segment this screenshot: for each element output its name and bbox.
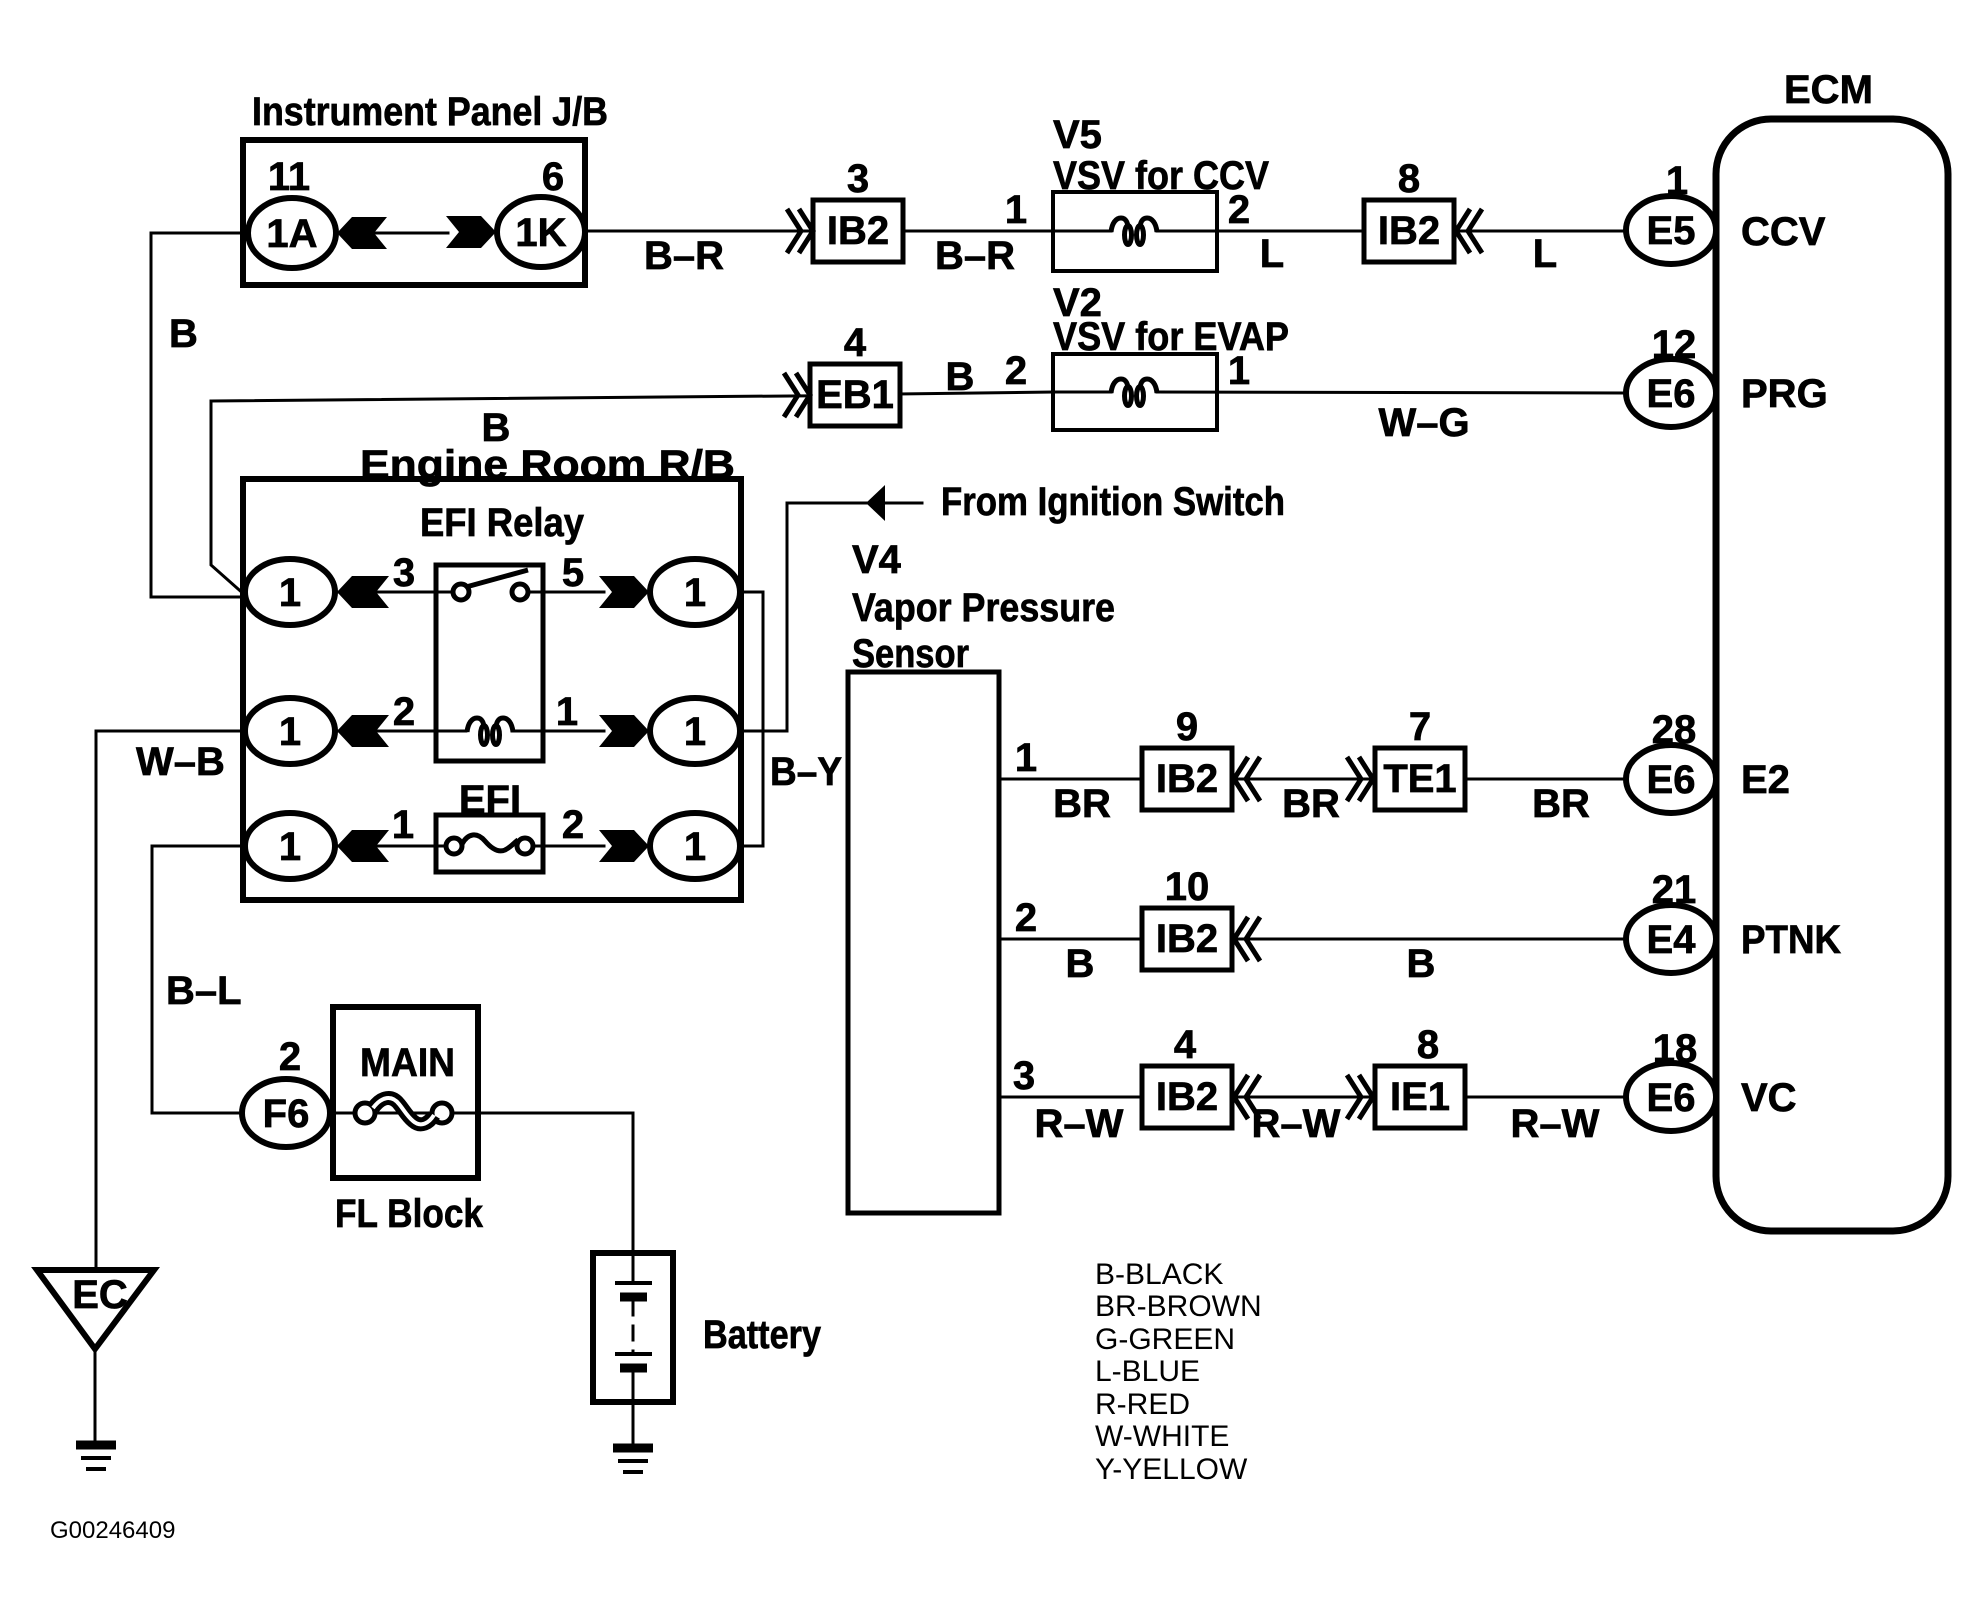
connector EB1 (4) <box>810 364 900 426</box>
svg-text:5: 5 <box>562 551 584 595</box>
svg-text:EC: EC <box>72 1273 128 1317</box>
svg-text:3: 3 <box>847 157 869 201</box>
svg-text:E4: E4 <box>1647 918 1697 962</box>
EFI relay box <box>436 565 543 761</box>
arrow into 1A <box>337 217 387 249</box>
svg-text:W–B: W–B <box>136 740 225 784</box>
svg-text:IB2: IB2 <box>1156 1075 1218 1119</box>
VSV for EVAP V2 box <box>1053 354 1217 430</box>
svg-text:EFI Relay: EFI Relay <box>420 501 585 545</box>
svg-text:G00246409: G00246409 <box>50 1517 175 1544</box>
wire BR vapor pressure sensor pin1 to E6 (E2 row) <box>999 778 1626 781</box>
svg-text:21: 21 <box>1652 868 1697 912</box>
svg-text:R-RED: R-RED <box>1095 1388 1190 1421</box>
wire B from 1A down to Engine Room R/B <box>151 233 248 597</box>
svg-text:28: 28 <box>1652 708 1697 752</box>
svg-text:R–W: R–W <box>1511 1102 1600 1146</box>
svg-text:W-WHITE: W-WHITE <box>1095 1420 1229 1453</box>
chevron splice after IB2 9 <box>1234 757 1260 801</box>
chevron splice after IB2 8 <box>1456 209 1482 253</box>
arrow into relay row1 right oval <box>599 576 649 608</box>
svg-text:Engine Room R/B: Engine Room R/B <box>360 443 735 487</box>
node E6 pin 12 <box>1626 359 1716 427</box>
wire EC triangle to ground <box>94 1349 97 1443</box>
wire battery negative to ground <box>632 1368 635 1444</box>
svg-text:1: 1 <box>279 710 301 754</box>
svg-text:6: 6 <box>542 155 564 199</box>
arrow into relay row3 right oval <box>599 830 649 862</box>
svg-text:B: B <box>169 312 198 356</box>
svg-text:1: 1 <box>279 825 301 869</box>
svg-text:W–G: W–G <box>1378 401 1469 445</box>
wire relay row2 internal <box>335 730 604 733</box>
wire MAIN fuse to battery <box>478 1113 633 1253</box>
svg-text:1: 1 <box>684 710 706 754</box>
coil of VSV for CCV V5 <box>1111 218 1157 245</box>
arrow into relay row2 left oval <box>337 715 389 747</box>
svg-text:E6: E6 <box>1647 1076 1696 1120</box>
wire inside MAIN box <box>333 1112 478 1115</box>
svg-text:VC: VC <box>1741 1076 1797 1120</box>
VSV for CCV V5 box <box>1053 192 1217 271</box>
svg-text:R–W: R–W <box>1035 1102 1124 1146</box>
connector IB2 (3) <box>813 200 903 262</box>
wire between 1A and 1K <box>336 232 448 235</box>
svg-text:E6: E6 <box>1647 758 1696 802</box>
svg-text:3: 3 <box>393 551 415 595</box>
svg-text:EFI: EFI <box>459 778 521 822</box>
svg-text:9: 9 <box>1176 705 1198 749</box>
svg-text:2: 2 <box>1228 188 1250 232</box>
chevron splice after IB2 10 <box>1234 917 1260 961</box>
wire relay row3 internal <box>335 845 604 848</box>
svg-text:CCV: CCV <box>1741 210 1826 254</box>
svg-text:L: L <box>1533 232 1557 276</box>
svg-text:E6: E6 <box>1647 372 1696 416</box>
svg-text:4: 4 <box>844 321 867 365</box>
node 1K <box>497 197 585 267</box>
svg-text:V4: V4 <box>852 538 902 582</box>
chevron splice before IE1 <box>1347 1075 1373 1119</box>
node relay row3 left 1 <box>245 813 335 879</box>
node 1A <box>248 198 336 268</box>
svg-text:1K: 1K <box>515 211 566 255</box>
svg-text:Y-YELLOW: Y-YELLOW <box>1095 1453 1248 1486</box>
svg-text:Sensor: Sensor <box>852 632 969 676</box>
connector TE1 (7) <box>1375 748 1465 810</box>
arrow from ignition switch <box>866 485 885 521</box>
ground below EC <box>76 1445 116 1469</box>
chevron splice after IB2 4 <box>1234 1075 1260 1119</box>
svg-text:FL Block: FL Block <box>335 1192 484 1236</box>
svg-text:B: B <box>1066 942 1095 986</box>
connector IB2 (10) <box>1142 908 1232 970</box>
node relay row1 right 1 <box>650 559 740 625</box>
arrow into relay row1 left oval <box>337 576 389 608</box>
wire B-R from 1K to IB2 (CCV row) <box>585 230 1111 233</box>
svg-text:7: 7 <box>1409 705 1431 749</box>
svg-text:10: 10 <box>1165 865 1210 909</box>
svg-text:2: 2 <box>562 803 584 847</box>
arrow into relay row2 right oval <box>599 715 649 747</box>
svg-text:IB2: IB2 <box>827 209 889 253</box>
svg-text:R–W: R–W <box>1252 1102 1341 1146</box>
ground below battery <box>613 1448 653 1472</box>
connector IE1 (8) <box>1375 1066 1465 1128</box>
svg-text:1: 1 <box>556 690 578 734</box>
svg-text:BR: BR <box>1532 782 1590 826</box>
svg-text:MAIN: MAIN <box>360 1041 455 1085</box>
svg-text:Instrument Panel J/B: Instrument Panel J/B <box>252 90 608 134</box>
svg-text:L: L <box>1260 232 1284 276</box>
svg-text:B-BLACK: B-BLACK <box>1095 1258 1223 1291</box>
wire relay row1 internal <box>335 591 604 594</box>
svg-text:ECM: ECM <box>1784 68 1873 112</box>
vapor pressure sensor V4 box <box>848 672 999 1213</box>
svg-text:B–R: B–R <box>935 234 1015 278</box>
coil of EFI relay <box>467 718 513 745</box>
svg-text:8: 8 <box>1398 157 1420 201</box>
svg-text:B: B <box>1407 942 1436 986</box>
EFI fuse element <box>446 835 533 854</box>
svg-text:BR: BR <box>1282 782 1340 826</box>
MAIN fusible link element <box>355 1098 452 1124</box>
svg-text:E2: E2 <box>1741 758 1790 802</box>
svg-text:11: 11 <box>268 155 310 199</box>
battery cell plates <box>615 1283 652 1368</box>
svg-text:2: 2 <box>279 1035 301 1079</box>
svg-text:12: 12 <box>1652 323 1697 367</box>
ground EC triangle <box>37 1270 154 1349</box>
svg-text:TE1: TE1 <box>1383 757 1456 801</box>
svg-text:B: B <box>946 355 975 399</box>
node relay row2 left 1 <box>245 698 335 764</box>
node E5 pin 1 <box>1626 196 1716 264</box>
battery box <box>593 1253 673 1402</box>
svg-text:F6: F6 <box>263 1092 310 1136</box>
svg-text:2: 2 <box>1015 896 1037 940</box>
wire W-B down to EC ground <box>95 731 98 1270</box>
svg-text:IB2: IB2 <box>1156 917 1218 961</box>
svg-text:2: 2 <box>1005 349 1027 393</box>
wire from ignition switch to relay row2 <box>740 503 922 731</box>
wire B from EB1 to VSV EVAP pin 2 <box>898 392 1111 394</box>
svg-text:4: 4 <box>1174 1023 1197 1067</box>
coil of VSV for EVAP V2 <box>1111 379 1157 406</box>
wire W-B to relay oval row2 <box>96 730 245 733</box>
wire battery positive stem <box>632 1253 635 1283</box>
relay block Engine Room R/B <box>243 479 741 900</box>
node relay row1 left 1 <box>245 559 335 625</box>
arrow into relay row3 left oval <box>337 830 389 862</box>
svg-text:PRG: PRG <box>1741 372 1828 416</box>
node E6 pin 18 <box>1626 1063 1716 1131</box>
svg-text:IE1: IE1 <box>1390 1075 1450 1119</box>
junction block Instrument Panel J/B <box>243 140 585 285</box>
node E4 pin 21 <box>1626 905 1716 973</box>
wire battery center dashed <box>632 1301 635 1353</box>
node relay row3 right 1 <box>650 813 740 879</box>
svg-text:V5: V5 <box>1053 113 1102 157</box>
wire R-W vapor pressure sensor pin3 to E6 (VC row) <box>999 1096 1626 1099</box>
connector IB2 (4) VC row <box>1142 1066 1232 1128</box>
connector IB2 (8) <box>1364 200 1454 262</box>
EFI relay switch contact <box>453 570 528 600</box>
wire B-L from relay row3 to F6 <box>152 846 245 1113</box>
EFI fuse box <box>436 815 543 872</box>
svg-text:B–R: B–R <box>644 234 724 278</box>
svg-text:18: 18 <box>1653 1027 1698 1071</box>
svg-text:1A: 1A <box>266 212 317 256</box>
svg-text:L-BLUE: L-BLUE <box>1095 1355 1200 1388</box>
arrow into 1K <box>446 216 496 248</box>
node F6 <box>242 1079 330 1147</box>
svg-text:IB2: IB2 <box>1378 209 1440 253</box>
node E6 pin 28 <box>1626 745 1716 813</box>
wire B from corner to EB1 (PRG row) <box>211 395 898 401</box>
svg-text:BR: BR <box>1053 782 1111 826</box>
svg-text:2: 2 <box>393 690 415 734</box>
svg-text:PTNK: PTNK <box>1741 918 1841 962</box>
wire L from VSV CCV pin2 to IB2 8 and E5 <box>1157 230 1626 233</box>
svg-text:8: 8 <box>1417 1023 1439 1067</box>
svg-text:1: 1 <box>279 571 301 615</box>
svg-text:B–Y: B–Y <box>770 750 842 794</box>
chevron splice before EB1 <box>784 373 810 417</box>
chevron splice before TE1 <box>1347 757 1373 801</box>
svg-text:Battery: Battery <box>703 1313 822 1357</box>
svg-text:Vapor Pressure: Vapor Pressure <box>852 586 1115 630</box>
svg-text:1: 1 <box>392 803 414 847</box>
svg-text:G-GREEN: G-GREEN <box>1095 1323 1235 1356</box>
svg-text:B–L: B–L <box>166 969 242 1013</box>
svg-text:1: 1 <box>1005 188 1027 232</box>
wire B-Y bus right of relay <box>740 592 763 846</box>
svg-text:EB1: EB1 <box>816 373 894 417</box>
svg-text:VSV for EVAP: VSV for EVAP <box>1053 315 1289 359</box>
connector IB2 (9) <box>1142 748 1232 810</box>
svg-text:BR-BROWN: BR-BROWN <box>1095 1290 1262 1323</box>
fusible link MAIN box <box>333 1007 478 1178</box>
node relay row2 right 1 <box>650 698 740 764</box>
svg-text:1: 1 <box>684 571 706 615</box>
svg-text:From Ignition Switch: From Ignition Switch <box>941 480 1285 524</box>
wire B vapor pressure sensor pin2 to E4 (PTNK row) <box>999 938 1626 941</box>
wire B branch to EB1 row <box>211 401 246 596</box>
svg-text:1: 1 <box>1228 349 1250 393</box>
svg-text:3: 3 <box>1013 1054 1035 1098</box>
svg-text:IB2: IB2 <box>1156 757 1218 801</box>
svg-text:1: 1 <box>1015 736 1037 780</box>
wire W-G from VSV EVAP pin1 to E6 <box>1157 392 1626 393</box>
ECM box <box>1716 119 1948 1231</box>
chevron splice before IB2 3 <box>787 209 813 253</box>
svg-text:1: 1 <box>1666 159 1688 203</box>
svg-text:E5: E5 <box>1647 209 1696 253</box>
svg-text:1: 1 <box>684 825 706 869</box>
